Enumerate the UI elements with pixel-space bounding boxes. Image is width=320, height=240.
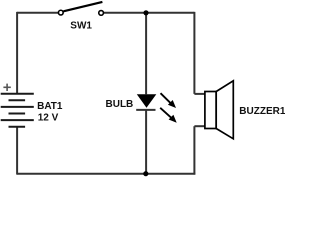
svg-text:SW1: SW1 <box>70 21 92 32</box>
wire top rail right segment <box>104 12 195 14</box>
wire left rail upper <box>16 12 18 94</box>
wire bulb branch upper <box>145 13 147 94</box>
node junction dot bottom <box>143 171 148 176</box>
svg-text:BAT1: BAT1 <box>37 101 63 112</box>
battery BAT1 plus sign <box>3 84 10 91</box>
LED light arrow 1 <box>161 93 177 108</box>
node junction dot top <box>143 10 148 15</box>
wire bulb branch lower <box>145 110 147 174</box>
LED bulb triangle <box>137 94 157 108</box>
LED light arrow 2 <box>160 108 177 123</box>
switch SW1 left contact <box>58 10 63 15</box>
wire left rail lower <box>16 127 18 175</box>
svg-text:BULB: BULB <box>106 99 134 110</box>
buzzer BUZZER1 coil box <box>205 92 216 129</box>
wire top rail left segment <box>17 12 58 14</box>
battery BAT1 plates <box>1 94 34 127</box>
LED bulb cathode bar <box>136 109 155 111</box>
buzzer BUZZER1 cone <box>216 81 233 139</box>
wire buzzer feed lower <box>193 126 195 174</box>
switch SW1 right contact <box>99 11 104 16</box>
wire buzzer feed upper <box>193 12 195 94</box>
svg-text:BUZZER1: BUZZER1 <box>239 106 285 117</box>
wire bottom rail <box>17 173 195 175</box>
wire buzzer top stub <box>194 93 205 95</box>
switch SW1 blade <box>63 2 102 11</box>
wire buzzer bottom stub <box>194 125 205 127</box>
svg-text:12 V: 12 V <box>38 112 59 123</box>
